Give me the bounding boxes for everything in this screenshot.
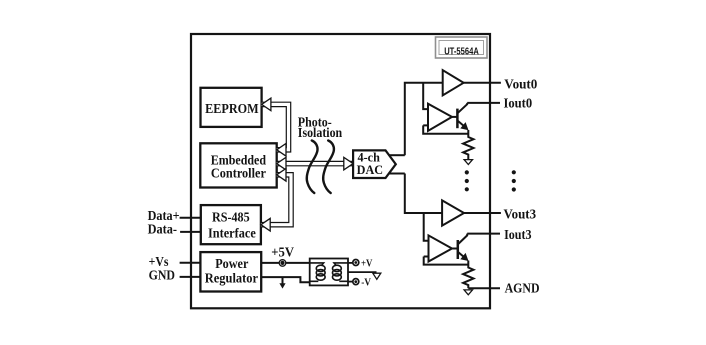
bus EEPROM to Controller (hollow wire) [262, 98, 289, 156]
wire to -V terminal [348, 281, 353, 283]
resistor ch3 [463, 261, 473, 289]
svg-text:UT-5564A: UT-5564A [444, 45, 479, 56]
label Photo-Isolation [298, 113, 343, 140]
label Vout3 [504, 206, 537, 222]
label +Vs [149, 253, 169, 269]
wire branch to current amp ch3 [424, 213, 429, 241]
label Data- [148, 221, 177, 237]
op-amp current driver ch0 [428, 104, 452, 131]
op-amp current driver ch3 [429, 235, 453, 261]
wire DAC upper output [390, 154, 405, 156]
bus Controller to DAC (hollow wire) [277, 157, 353, 170]
wire Iout3 [467, 233, 500, 235]
wire +5V rail [261, 262, 310, 264]
Embedded Controller block [200, 143, 276, 187]
4-ch DAC block (pentagon) [353, 150, 396, 178]
wire secondary center tap [348, 271, 377, 273]
terminal +V [353, 260, 359, 266]
wire feedback ch3 [424, 257, 469, 265]
op-amp voltage buffer ch3 [442, 200, 464, 225]
svg-text:DAC: DAC [357, 163, 383, 177]
svg-text:Interface: Interface [208, 225, 256, 241]
label +V [361, 258, 373, 270]
wire to +V terminal [348, 262, 353, 264]
wire GND to Power Regulator [180, 276, 201, 278]
EEPROM block [201, 88, 262, 127]
wire Iout0 [467, 102, 500, 104]
transistor Q0 [452, 103, 469, 130]
label Vout0 [504, 76, 537, 91]
label Iout3 [504, 226, 532, 242]
label Data+ [148, 207, 180, 223]
wire feedback ch0 [423, 125, 468, 133]
label -V [361, 277, 371, 289]
svg-text:Regulator: Regulator [205, 270, 258, 286]
transformer T1 box [310, 259, 348, 286]
module outline box [191, 34, 490, 308]
label +5V [271, 244, 294, 260]
label Iout0 [504, 95, 533, 111]
wire DAC lower output [390, 173, 405, 175]
svg-text:+V: +V [361, 258, 373, 270]
wire bus up to channel 0 [405, 83, 443, 155]
part number label UT-5564A [436, 37, 488, 58]
transistor Q3 [452, 234, 469, 261]
svg-text:RS-485: RS-485 [212, 209, 250, 225]
svg-text:Isolation: Isolation [298, 124, 343, 140]
open arrow below AGND node [464, 290, 472, 295]
wire Vout3 [464, 212, 501, 214]
wire Vout0 [464, 82, 501, 84]
svg-text:EEPROM: EEPROM [205, 100, 259, 116]
open arrow on center tap [373, 273, 381, 279]
svg-text:GND: GND [149, 267, 175, 283]
transformer secondary winding [333, 263, 349, 281]
wire Data- to RS-485 [180, 231, 201, 233]
label GND [149, 267, 175, 283]
open arrow to AGND ch0 [464, 160, 472, 165]
ground arrow on return rail [279, 277, 285, 289]
svg-text:Iout3: Iout3 [504, 226, 532, 242]
ellipsis dots inner [465, 170, 469, 191]
resistor ch0 [463, 130, 473, 160]
terminal -V [353, 279, 359, 285]
transformer primary winding [310, 263, 325, 281]
RS-485 Interface block [201, 205, 261, 244]
svg-text:AGND: AGND [505, 279, 540, 295]
op-amp voltage buffer ch0 [443, 70, 464, 95]
ellipsis dots outer [512, 170, 516, 191]
wire bus down to channel 3 [405, 174, 442, 214]
wire AGND [468, 287, 500, 289]
wire power return [261, 277, 310, 282]
Power Regulator block [200, 252, 261, 291]
bus Controller to RS-485 (hollow wire) [261, 169, 291, 232]
label AGND [505, 279, 540, 295]
svg-text:Data-: Data- [148, 221, 177, 237]
svg-text:Controller: Controller [211, 165, 266, 181]
isolation squiggle right [323, 141, 334, 194]
isolation squiggle left [307, 141, 318, 194]
svg-text:Iout0: Iout0 [504, 95, 533, 111]
svg-text:+5V: +5V [271, 244, 294, 260]
wire branch to current amp ch0 [423, 83, 428, 109]
svg-text:Vout0: Vout0 [504, 76, 537, 91]
wire Data+ to RS-485 [180, 217, 201, 219]
wire +Vs to Power Regulator [180, 262, 201, 264]
node +5V terminal [279, 260, 286, 267]
svg-text:-V: -V [361, 277, 371, 289]
svg-text:Vout3: Vout3 [504, 206, 537, 222]
